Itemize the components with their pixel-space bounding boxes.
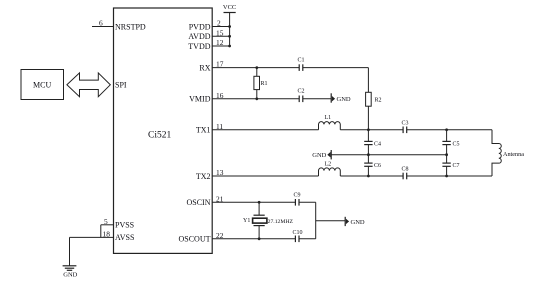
svg-text:C7: C7 <box>453 163 460 169</box>
junction TX2-C6 branch <box>367 175 370 178</box>
svg-text:C2: C2 <box>298 89 305 95</box>
inductor L1 <box>319 122 341 130</box>
svg-text:C6: C6 <box>374 163 381 169</box>
wire AVSS to ground <box>69 237 71 265</box>
capacitor C9 <box>295 199 299 206</box>
capacitor C7 <box>442 155 450 176</box>
svg-text:Y1: Y1 <box>243 218 250 224</box>
wire OSCIN pin 21 <box>212 201 295 203</box>
junction VCC-PVDD <box>228 25 231 28</box>
svg-text:12: 12 <box>216 38 224 47</box>
svg-text:SPI: SPI <box>115 81 127 90</box>
svg-text:TX2: TX2 <box>196 172 211 181</box>
junction VMID-R1 <box>255 97 258 100</box>
antenna coil <box>492 130 501 176</box>
wire TVDD pin 12 stub <box>212 45 229 47</box>
svg-text:17: 17 <box>216 60 224 69</box>
wire TX2 pin 13 <box>212 175 318 177</box>
wire VMID to ground <box>303 98 331 100</box>
svg-text:11: 11 <box>216 122 223 131</box>
svg-text:13: 13 <box>216 168 224 177</box>
svg-text:27.12MHZ: 27.12MHZ <box>268 219 294 225</box>
svg-text:RX: RX <box>199 63 210 72</box>
svg-text:TX1: TX1 <box>196 126 211 135</box>
svg-text:C4: C4 <box>374 141 381 147</box>
op-amp U1 : Ci521 chip body <box>114 8 213 253</box>
wire NRSTPD pin 6 <box>92 26 114 28</box>
wire oscillator right vertical <box>315 202 317 239</box>
resistor R2 <box>366 68 372 130</box>
svg-text:L2: L2 <box>325 161 332 167</box>
svg-text:OSCIN: OSCIN <box>186 198 210 207</box>
svg-text:Ci521: Ci521 <box>148 131 171 141</box>
svg-text:C3: C3 <box>402 121 409 127</box>
svg-text:C8: C8 <box>402 167 409 173</box>
power VCC symbol <box>223 4 236 13</box>
junction bottom line C7 branch <box>445 175 448 178</box>
crystal Y1 <box>253 202 267 239</box>
capacitor C8 <box>403 173 407 180</box>
wire OSCOUT pin 22 <box>212 238 295 240</box>
svg-text:22: 22 <box>216 231 224 240</box>
junction OSCOUT-crystal <box>258 237 261 240</box>
capacitor C4 <box>364 130 372 155</box>
ground flag after C2 <box>331 93 351 103</box>
svg-text:OSCOUT: OSCOUT <box>178 235 210 244</box>
junction middle-C4C6 <box>367 153 370 156</box>
junction top line C5 branch <box>445 128 448 131</box>
capacitor C10 <box>295 236 299 243</box>
svg-text:18: 18 <box>103 229 111 238</box>
MCU box <box>21 70 64 100</box>
wire middle ground line <box>331 154 446 156</box>
svg-text:C5: C5 <box>453 141 460 147</box>
capacitor C1 <box>299 64 303 71</box>
svg-text:PVSS: PVSS <box>115 221 134 230</box>
svg-text:R2: R2 <box>375 98 382 104</box>
SPI bidirectional arrow <box>67 73 110 97</box>
svg-text:MCU: MCU <box>33 81 51 90</box>
junction VCC-TVDD <box>228 45 231 48</box>
svg-text:AVSS: AVSS <box>115 233 134 242</box>
resistor R1 <box>254 68 260 99</box>
wire to oscillator ground <box>316 220 346 222</box>
svg-text:AVDD: AVDD <box>188 32 210 41</box>
svg-text:NRSTPD: NRSTPD <box>115 22 146 31</box>
svg-text:PVDD: PVDD <box>189 22 211 31</box>
capacitor C3 <box>403 127 407 134</box>
capacitor C2 <box>299 96 303 103</box>
svg-text:C1: C1 <box>298 58 305 64</box>
wire OSCIN after C9 <box>299 201 316 203</box>
junction RX-R1 <box>255 66 258 69</box>
svg-text:16: 16 <box>216 91 224 100</box>
junction TX1-R2 branch <box>367 128 370 131</box>
svg-text:VMID: VMID <box>189 95 211 104</box>
svg-text:Antenna: Antenna <box>503 151 524 158</box>
ground earth symbol <box>63 266 77 271</box>
wire RX right segment <box>303 67 369 69</box>
junction VCC-AVDD <box>228 35 231 38</box>
wire AVSS pin 18 <box>70 236 114 238</box>
capacitor C6 <box>364 155 372 176</box>
svg-text:VCC: VCC <box>223 4 236 11</box>
capacitor C5 <box>442 130 450 155</box>
wire PVSS-AVSS vertical <box>100 225 102 238</box>
svg-text:GND: GND <box>337 96 351 103</box>
wire RX pin 17 <box>212 67 299 69</box>
svg-text:C9: C9 <box>294 193 301 199</box>
svg-text:R1: R1 <box>261 81 268 87</box>
wire TX1 after L1 <box>340 129 403 131</box>
svg-text:C10: C10 <box>293 230 303 236</box>
wire VCC rail <box>229 13 231 47</box>
svg-text:15: 15 <box>216 28 224 37</box>
svg-text:GND: GND <box>63 271 77 278</box>
wire TX2 after L2 <box>340 175 403 177</box>
svg-text:L1: L1 <box>325 115 332 121</box>
junction middle-C5C7 <box>445 153 448 156</box>
svg-text:TVDD: TVDD <box>188 42 210 51</box>
ground flag middle line <box>312 150 331 159</box>
svg-text:2: 2 <box>217 19 221 28</box>
wire PVSS pin 5 <box>101 224 114 226</box>
wire TX2 to antenna bottom <box>407 175 492 177</box>
svg-text:5: 5 <box>104 217 108 226</box>
svg-text:GND: GND <box>312 152 326 159</box>
svg-text:GND: GND <box>351 219 365 226</box>
wire TX1 pin 11 <box>212 129 318 131</box>
ground flag oscillator <box>345 217 365 226</box>
wire VMID pin 16 <box>212 98 299 100</box>
svg-text:6: 6 <box>99 19 103 28</box>
inductor L2 <box>319 168 341 176</box>
svg-text:21: 21 <box>216 194 224 203</box>
wire PVDD pin 2 stub <box>212 26 229 28</box>
wire OSCOUT after C10 <box>299 238 316 240</box>
junction OSCIN-crystal <box>258 201 261 204</box>
wire TX1 to antenna top <box>407 129 492 131</box>
wire AVDD pin 15 stub <box>212 35 229 37</box>
